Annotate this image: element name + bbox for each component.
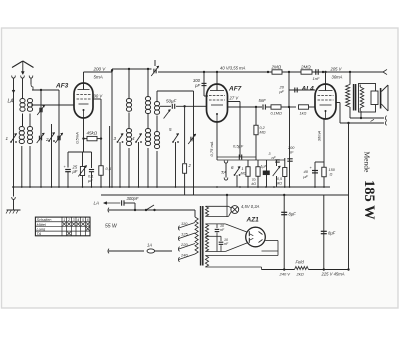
svg-text:AF7: AF7 [228,86,242,93]
svg-text:MΩ: MΩ [260,131,266,135]
svg-text:240: 240 [180,253,188,258]
svg-text:AF3: AF3 [55,83,69,90]
svg-text:0,2: 0,2 [260,126,266,130]
svg-text:TA: TA [37,231,42,236]
svg-text:36mA: 36mA [332,75,343,80]
svg-text:4,5V 0,3A: 4,5V 0,3A [241,204,260,209]
svg-text:205 V: 205 V [330,67,343,72]
svg-text:Ω: Ω [330,173,333,177]
svg-text:pF: pF [194,83,200,88]
svg-text:1A: 1A [147,243,152,248]
svg-text:150: 150 [329,168,336,172]
svg-text:1: 1 [63,218,65,222]
svg-text:0,5: 0,5 [106,166,112,171]
svg-text:2MΩ: 2MΩ [271,65,282,70]
svg-text:27 V: 27 V [229,96,240,101]
svg-text:0,5μF: 0,5μF [233,144,244,149]
svg-text:2kΩ: 2kΩ [296,271,304,276]
svg-text:μF: μF [72,169,78,174]
svg-text:55 W: 55 W [105,224,118,230]
svg-text:110: 110 [181,221,188,226]
svg-text:90 V: 90 V [94,94,104,99]
svg-text:8μF: 8μF [289,212,297,217]
svg-text:45kΩ: 45kΩ [87,131,98,136]
svg-text:300pF: 300pF [127,196,139,201]
svg-text:μF: μF [302,174,308,179]
svg-text:4: 4 [77,218,79,222]
svg-text:2: 2 [67,218,70,222]
svg-text:125: 125 [181,232,188,237]
svg-text:kΩ: kΩ [252,182,257,186]
svg-text:200 V: 200 V [93,67,107,72]
svg-text:pF: pF [288,151,294,155]
svg-text:AZ1: AZ1 [246,217,260,224]
svg-text:pF: pF [278,89,284,94]
svg-text:0,1MΩ: 0,1MΩ [271,112,282,116]
svg-text:TA: TA [221,170,226,175]
svg-text:240 V: 240 V [279,271,291,276]
svg-text:Mende: Mende [363,152,372,173]
svg-text:8μF: 8μF [328,231,336,236]
svg-text:225 V 45mA: 225 V 45mA [321,271,345,276]
svg-text:5mA: 5mA [94,75,103,80]
svg-text:μF: μF [87,178,93,183]
svg-text:2MΩ: 2MΩ [300,65,311,70]
svg-text:200: 200 [287,146,295,150]
svg-text:AL4: AL4 [301,86,315,93]
svg-text:185 W: 185 W [361,180,377,220]
svg-text:1kΩ: 1kΩ [300,112,307,116]
svg-text:36mA: 36mA [317,130,322,141]
svg-text:1nF: 1nF [313,76,320,81]
svg-text:0,5mA: 0,5mA [75,132,80,144]
svg-text:5nF: 5nF [259,98,267,103]
svg-text:40 V/3,55 mA: 40 V/3,55 mA [220,66,246,71]
svg-text:3: 3 [269,152,271,156]
svg-text:LA: LA [94,201,100,206]
svg-text:MΩ: MΩ [241,171,247,175]
svg-text:0,75 mA: 0,75 mA [209,141,214,156]
svg-text:LA: LA [8,99,15,105]
svg-text:220: 220 [180,242,188,247]
svg-text:Feld: Feld [296,260,305,265]
svg-text:50μF: 50μF [166,99,176,104]
svg-text:MΩ: MΩ [276,181,282,185]
